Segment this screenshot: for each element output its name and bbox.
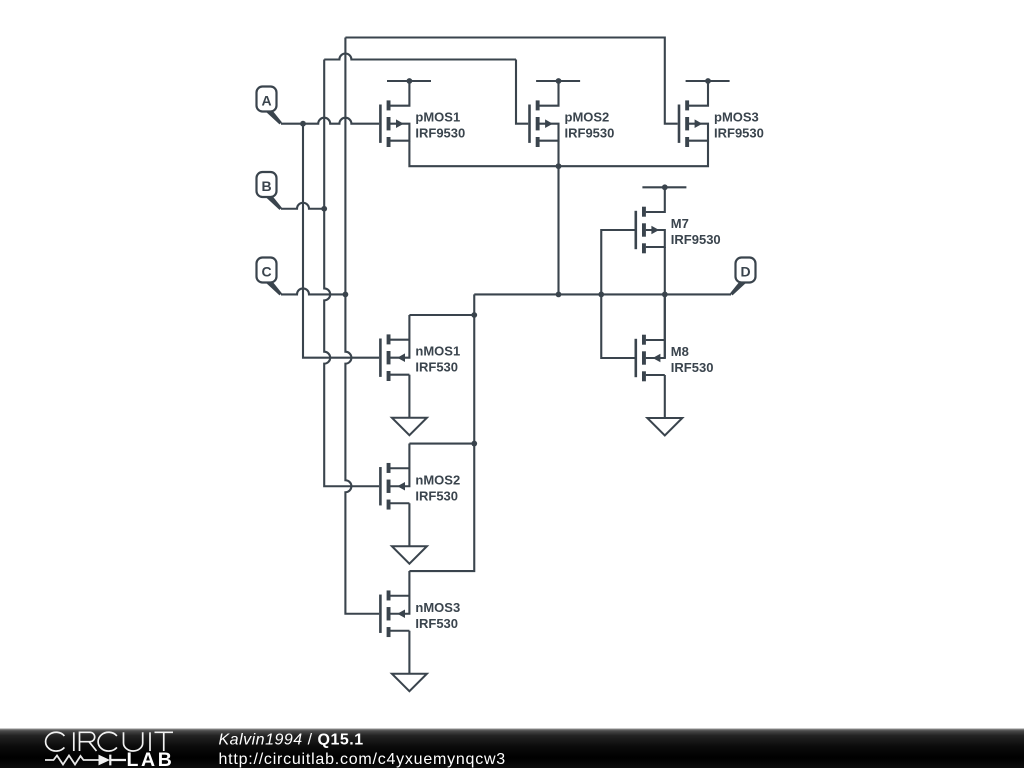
node junction dot (pMOS2 drain on drain rail) <box>556 163 562 169</box>
wire (input C from flag to bus C, hop over bus A) <box>281 288 345 294</box>
transistor Q2 (pMOS2 IRF9530 p-channel MOSFET) <box>530 78 615 147</box>
svg-text:pMOS1: pMOS1 <box>415 110 460 125</box>
svg-text:IRF9530: IRF9530 <box>415 126 465 141</box>
node C junction dot <box>343 292 349 298</box>
node C (net flag input C) <box>257 258 282 296</box>
svg-text:M7: M7 <box>671 216 689 231</box>
transistor M7 (M7 IRF9530 p-channel MOSFET) <box>636 184 721 253</box>
wire (bus B down to nMOS2 gate, hops over wire C and nMOS1 gate wire) <box>324 60 379 487</box>
wire (input B rail to pMOS2 gate, hop over bus C) <box>324 54 528 124</box>
svg-text:Kalvin1994 / Q15.1: Kalvin1994 / Q15.1 <box>219 731 364 748</box>
ground (nMOS3 source) <box>392 631 427 692</box>
wire (nMOS1 drain to drain bus) <box>409 314 474 316</box>
svg-text:A: A <box>261 93 271 109</box>
wire (pMOS drain rail joining pMOS1 and pMOS3 drains) <box>409 141 708 167</box>
node A junction dot on wire A <box>300 121 306 127</box>
wire (pMOS2 drain down to output node) <box>557 141 559 295</box>
wire (M7 drain down to output rail) <box>664 247 666 294</box>
svg-text:M8: M8 <box>671 344 689 359</box>
svg-text:IRF530: IRF530 <box>671 360 714 375</box>
wire (nMOS2 drain to drain bus) <box>409 442 474 444</box>
transistor Q6 (nMOS3 IRF530 n-channel MOSFET) <box>380 571 460 637</box>
node B junction dot <box>321 206 327 212</box>
wire (input C top rail to pMOS3 gate) <box>345 38 677 124</box>
ground (nMOS1 source) <box>392 375 427 436</box>
wire (bus A down to nMOS1 gate) <box>303 124 379 358</box>
svg-text:nMOS3: nMOS3 <box>415 600 460 615</box>
node junction dot (M7/M8 drains meet output rail) <box>662 292 668 298</box>
svg-text:IRF9530: IRF9530 <box>565 126 615 141</box>
svg-text:http://circuitlab.com/c4yxuemy: http://circuitlab.com/c4yxuemynqcw3 <box>219 751 506 768</box>
transistor Q1 (pMOS1 IRF9530 p-channel MOSFET) <box>380 78 465 147</box>
transistor Q5 (nMOS2 IRF530 n-channel MOSFET) <box>380 444 460 510</box>
node junction dot (nMOS2 drain) <box>471 441 477 447</box>
transistor Q4 (nMOS1 IRF530 n-channel MOSFET) <box>380 315 460 381</box>
svg-text:pMOS2: pMOS2 <box>565 110 610 125</box>
ground (M8 source) <box>647 375 682 436</box>
footer bar <box>0 729 1024 768</box>
wire (nMOS drain bus down left side of nMOS stack) <box>409 294 474 571</box>
node junction dot (pMOS drain rail meets output rail) <box>556 292 562 298</box>
CircuitLab logo resistor-diode glyph <box>45 756 99 765</box>
svg-text:IRF9530: IRF9530 <box>714 126 764 141</box>
svg-text:IRF9530: IRF9530 <box>671 232 721 247</box>
wire (M7 and M8 gate loop tied to output) <box>601 230 634 358</box>
wire (input B from flag to bus B, hop over bus A) <box>281 203 324 209</box>
wire (output rail to node D) <box>474 293 731 295</box>
svg-text:D: D <box>740 264 750 280</box>
CircuitLab logo word CIRCUIT <box>46 732 173 751</box>
wire (bus C down to nMOS3 gate, hops over nMOS1 and nMOS2 gate wires) <box>345 38 379 614</box>
wire (input A to pMOS1 gate, hops over buses B and C) <box>281 118 379 124</box>
svg-text:LAB: LAB <box>127 749 175 768</box>
svg-text:nMOS2: nMOS2 <box>415 472 460 487</box>
wire (M8 drain up to output rail) <box>664 294 666 358</box>
svg-text:pMOS3: pMOS3 <box>714 110 759 125</box>
node D (net flag output D) <box>730 258 755 296</box>
node A (net flag input A) <box>257 87 282 125</box>
transistor M8 (M8 IRF530 n-channel MOSFET) <box>636 294 714 381</box>
node B (net flag input B) <box>257 172 282 210</box>
svg-text:IRF530: IRF530 <box>415 616 458 631</box>
svg-text:IRF530: IRF530 <box>415 488 458 503</box>
svg-text:IRF530: IRF530 <box>415 360 458 375</box>
ground (nMOS2 source) <box>392 503 427 564</box>
node junction dot (nMOS1 drain) <box>471 312 477 318</box>
svg-text:B: B <box>261 178 271 194</box>
transistor Q3 (pMOS3 IRF9530 p-channel MOSFET) <box>679 78 764 147</box>
svg-text:nMOS1: nMOS1 <box>415 344 460 359</box>
svg-text:C: C <box>261 264 271 280</box>
node junction dot (M7/M8 gate loop meets output rail) <box>598 292 604 298</box>
